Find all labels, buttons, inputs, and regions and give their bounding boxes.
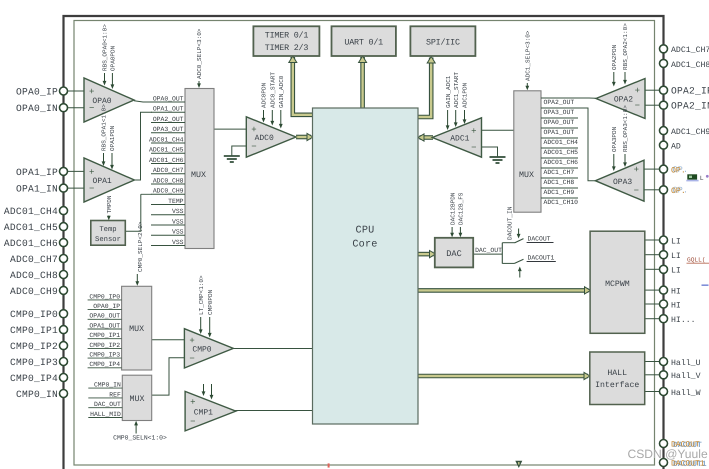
pin ADC0_CH7 [60,255,68,263]
op-amp OPA3 [595,160,644,201]
wire ADC0 minus to ground [232,146,247,156]
svg-text:OPA1_OUT: OPA1_OUT [153,106,184,113]
bus ADC0 out to CPU [296,135,311,140]
pin OPA2_IN right y=105.2 [660,101,668,109]
wire OPA2 out to MUX1 [541,97,596,99]
svg-text:CMP0_IP1: CMP0_IP1 [89,332,120,339]
svg-text:OPA1_IN: OPA1_IN [16,184,58,195]
svg-text:MUX: MUX [129,325,144,334]
wire CMP0 out to CPU [233,348,312,350]
svg-text:GAIN_ADC0: GAIN_ADC0 [278,75,285,108]
wire MCPWM out 2 [645,254,660,256]
ground ADC1 [490,156,506,158]
svg-text:RBS_OPA2<1:0>: RBS_OPA2<1:0> [622,23,629,70]
svg-text:MUX: MUX [519,171,534,180]
svg-text:CMP0_IP1: CMP0_IP1 [10,325,58,336]
svg-text:ADC01_CH5: ADC01_CH5 [4,222,58,233]
svg-text:−: − [471,143,476,153]
block CMP0 MUX N [122,375,151,420]
wire DAC out [473,253,502,255]
svg-text:ADC01_CH6: ADC01_CH6 [4,238,58,249]
svg-text:CMP0_SELP<2:0>: CMP0_SELP<2:0> [137,221,144,272]
svg-text:OPA0_OUT: OPA0_OUT [544,119,575,126]
bus SPI to CPU [418,58,432,118]
svg-text:OPA1PDN: OPA1PDN [109,125,116,151]
svg-text:ADC1_CH9: ADC1_CH9 [544,189,575,196]
wire OPA2_IN [645,104,659,106]
svg-text:CMP0_IP0: CMP0_IP0 [89,293,120,300]
block UART [332,26,396,56]
pin OPA0_IP [60,87,68,95]
svg-text:ADC01_CH5: ADC01_CH5 [544,149,579,156]
wire OPA0_IP stub [68,90,85,92]
pin OPA0_IN [60,104,68,112]
block MUX1 (ADC1 mux) [514,91,541,212]
svg-text:L: L [700,175,704,182]
svg-text:CMP0_IP3: CMP0_IP3 [10,357,58,368]
node DACOUT switch bar [501,243,503,264]
MUX1 input rows [541,97,578,99]
svg-text:OPA2_OUT: OPA2_OUT [544,99,575,106]
block MCPWM [590,231,645,333]
svg-text:CMP0_IN: CMP0_IN [94,382,121,389]
wire CMP1 out to CPU [235,410,312,412]
block MUX0 (ADC0 mux) [185,89,214,249]
svg-text:VSS: VSS [172,208,184,215]
wire OPA0 out to MUX0 [134,101,185,102]
wire MCPWM out 5 [645,303,660,305]
pin AD right y=145.1 [660,141,668,149]
pin OP. right y=189.8 [673,186,688,196]
wire OPA3_IP [644,168,659,170]
svg-text:Hall_U: Hall_U [671,359,701,368]
block CPU Core [313,108,419,424]
inner frame (olive) [74,21,655,466]
svg-text:ADC1_CH7: ADC1_CH7 [671,46,709,55]
artifact red tick [328,463,330,467]
svg-text:SPI/IIC: SPI/IIC [426,38,460,48]
svg-text:ADC1_CH7: ADC1_CH7 [544,169,575,176]
svg-text:ADC0_CH9: ADC0_CH9 [153,188,184,195]
block DAC [435,238,473,268]
signal arrow CMP1 b [211,384,213,397]
wire ADC1 minus to ground [482,147,498,157]
wire HALL out 3 [645,391,660,393]
arrow DACOUT1 select [519,270,521,278]
svg-text:OP.: OP. [671,187,686,196]
svg-text:ADC0_CH8: ADC0_CH8 [10,270,58,281]
svg-text:ADC01_CH4: ADC01_CH4 [4,206,58,217]
svg-text:CMP0_IP4: CMP0_IP4 [89,361,120,368]
switch blade DACOUT1 [515,259,524,263]
svg-text:UART 0/1: UART 0/1 [344,38,383,48]
svg-text:CMP0: CMP0 [192,346,211,355]
signal arrow CMP1 a [203,384,205,393]
pin HI right y=290.1 [660,286,668,294]
wire CMP0MUX to CMP0 plus [152,339,185,341]
svg-text:−: − [635,101,640,111]
block Temp Sensor [91,221,126,246]
svg-text:ADC1PDN: ADC1PDN [462,82,469,108]
svg-text:CMP0PDN: CMP0PDN [207,289,214,315]
svg-text:OPA1_IP: OPA1_IP [16,167,58,178]
pin OPA1_IP [60,167,68,175]
svg-text:CMP0_IP0: CMP0_IP0 [10,309,58,320]
bus CPU to ADC1 [420,135,434,140]
pin LI right y=269.3 [660,265,668,273]
svg-text:RBS_OPA1<1:0>: RBS_OPA1<1:0> [101,104,108,151]
svg-text:TMPDN: TMPDN [106,195,113,213]
svg-text:ADC1_CH8: ADC1_CH8 [671,61,709,70]
comparator CMP1 [185,391,236,431]
wire DACOUT label underline [527,242,554,244]
wire ADC0_CH9 row extension [141,193,152,195]
pin OPA2_IP right y=90.2 [660,86,668,94]
svg-text:DAC: DAC [446,249,461,259]
svg-text:OPA0_OUT: OPA0_OUT [89,313,120,320]
wire DACOUT1 label underline [527,261,556,263]
switch blade DACOUT [515,239,524,243]
svg-text:REF: REF [109,391,121,398]
svg-text:LI: LI [671,252,681,261]
svg-text:LI: LI [671,237,681,246]
wire OPA0_IN stub [68,107,85,109]
svg-text:CMP0_SELN<1:0>: CMP0_SELN<1:0> [113,435,167,442]
bus TIMER to CPU [293,57,313,115]
wire MCPWM out 3 [645,268,660,270]
svg-text:+: + [635,86,640,96]
pin ADC01_CH6 [60,239,68,247]
artifact link icon near OPA3_IP [687,174,697,179]
svg-text:MUX: MUX [191,171,206,180]
svg-text:CMP0_IP2: CMP0_IP2 [10,341,58,352]
wire HALL out 2 [645,374,660,376]
svg-text:CMP0_IP3: CMP0_IP3 [89,352,120,359]
svg-text:+: + [89,167,94,177]
pin ADC0_CH8 [60,271,68,279]
wire OPA3_IN [644,189,659,191]
svg-text:OPA1: OPA1 [93,177,112,186]
svg-text:TIMER 2/3: TIMER 2/3 [265,43,309,53]
bus CPU to HALL [418,374,588,379]
svg-text:Temp: Temp [99,226,116,234]
op-amp OPA2 [596,79,645,119]
svg-text:Core: Core [352,240,377,251]
comparator CMP0 [184,329,233,368]
wire MUX0 to ADC0 plus [214,128,247,130]
pin CMP0_IN [60,390,68,398]
op-amp OPA1 [84,158,134,202]
svg-text:ADC0_START: ADC0_START [270,72,277,108]
svg-text:ADC1_CH10: ADC1_CH10 [544,199,579,206]
wire DACOUT branch [502,242,514,244]
wire MCPWM out 4 [645,289,660,291]
bus UART to CPU [360,57,365,109]
CMP0 MUX P rows [88,299,122,301]
svg-text:ADC01_CH6: ADC01_CH6 [544,159,579,166]
pin ADC1_CH8 right y=63.4 [660,59,668,67]
wire MCPWM out 6 [645,318,660,320]
pin Hall_V right y=374.8 [660,371,668,379]
pin HI... right y=318.7 [660,315,668,323]
svg-text:TEMP: TEMP [168,198,184,205]
svg-text:OPA0_IN: OPA0_IN [16,103,58,114]
pin ADC01_CH5 [60,223,68,231]
bus CPU to MCPWM [418,288,589,293]
svg-text:Hall_W: Hall_W [671,389,701,398]
svg-text:OPA2_IN: OPA2_IN [671,101,709,112]
adc ADC1 [432,118,481,157]
svg-text:ADC1_CH9: ADC1_CH9 [671,128,709,137]
wire HALL out 1 [645,361,660,363]
svg-text:LI: LI [671,267,681,276]
ground ADC0 [224,155,240,157]
svg-text:ADC01_CH4: ADC01_CH4 [149,136,184,143]
adc ADC0 [246,117,296,157]
svg-text:HALL: HALL [607,369,627,378]
svg-text:HI: HI [671,288,681,297]
pin ADC1_CH9 right y=130.6 [660,127,668,135]
svg-text:+: + [190,398,195,408]
svg-text:ADC1_CH8: ADC1_CH8 [544,179,575,186]
svg-text:GQLL(: GQLL( [687,257,706,264]
svg-text:OPA2PDN: OPA2PDN [611,44,618,70]
svg-text:OPA1_OUT: OPA1_OUT [544,129,575,136]
svg-text:ADC0: ADC0 [255,134,274,143]
wire Temp Sensor to ADC0_CH9 row [126,194,141,231]
svg-text:ADC1_SELP<3:0>: ADC1_SELP<3:0> [525,30,532,81]
svg-text:Hall_V: Hall_V [671,372,701,381]
bus CPU to DAC [418,252,434,257]
svg-text:CMP0_IN: CMP0_IN [16,389,58,400]
svg-text:ADC1_START: ADC1_START [453,72,460,108]
svg-text:−: − [634,186,639,196]
svg-text:VSS: VSS [172,218,184,225]
svg-text:OPA3_OUT: OPA3_OUT [544,109,575,116]
svg-text:RBS_OPA3<1:0>: RBS_OPA3<1:0> [622,105,629,152]
pin CMP0_IP0 [60,310,68,318]
svg-text:ADC01_CH4: ADC01_CH4 [544,139,579,146]
svg-text:OPA3PDN: OPA3PDN [611,126,618,152]
svg-text:+: + [89,87,94,97]
svg-text:+: + [634,165,639,175]
svg-text:GAIN_ADC1: GAIN_ADC1 [445,75,452,108]
wire DACOUT1 branch [502,262,514,264]
svg-text:OPA3_OUT: OPA3_OUT [153,126,184,133]
svg-text:+: + [471,126,476,136]
MUX0 input rows [151,101,185,103]
pin LI right y=254.7 [660,251,668,259]
svg-text:ADC0_CH7: ADC0_CH7 [153,167,184,174]
wire OPA1_IP stub [68,170,85,172]
bottom frame exit arrow [515,461,522,468]
svg-text:ADC01_CH5: ADC01_CH5 [149,147,184,154]
svg-text:OPA0PDN: OPA0PDN [110,45,117,71]
svg-text:VSS: VSS [172,229,184,236]
svg-text:RBS_OPA0<1:0>: RBS_OPA0<1:0> [102,24,109,71]
pin CMP0_IP1 [60,326,68,334]
svg-text:HI: HI [671,301,681,310]
pin OPA1_IN [60,184,68,192]
svg-text:ADC0_CH9: ADC0_CH9 [10,286,58,297]
svg-text:OPA3: OPA3 [613,178,632,187]
artifact blue dash [702,284,709,286]
wire OPA1_IN stub [68,187,85,189]
svg-text:CMP0_IP4: CMP0_IP4 [10,373,58,384]
svg-text:DAC12B_FS: DAC12B_FS [458,192,465,225]
svg-text:OPA2: OPA2 [614,96,633,105]
svg-text:OPA2_OUT: OPA2_OUT [153,116,184,123]
svg-text:CSDN @Yuule: CSDN @Yuule [628,447,708,461]
svg-text:OP.: OP. [671,167,686,176]
pin CMP0_IP2 [60,342,68,350]
svg-text:Interface: Interface [595,381,639,390]
pin CMP0_IP4 [60,374,68,382]
CMP0 MUX N rows [88,387,122,389]
svg-text:ADC0PDN: ADC0PDN [261,82,268,108]
svg-text:HALL_MID: HALL_MID [90,411,121,418]
wire ADC1 plus to MUX1 [482,129,514,131]
block HALL Interface [590,352,645,405]
svg-text:ADC0_CH8: ADC0_CH8 [153,177,184,184]
wire MCPWM out 1 [645,239,660,241]
block TIMER [253,26,319,56]
pin Hall_W right y=391.5 [660,388,668,396]
svg-text:OPA2_IP: OPA2_IP [671,86,709,97]
wire OPA2_IP [645,89,659,91]
svg-text:+: + [189,336,194,346]
svg-text:VSS: VSS [172,239,184,246]
svg-text:OPA0_IP: OPA0_IP [16,86,58,97]
svg-text:−: − [189,354,194,364]
pin ADC0_CH9 [60,286,68,294]
svg-text:OPA1_OUT: OPA1_OUT [89,322,120,329]
svg-text:CMP0_IP2: CMP0_IP2 [89,342,120,349]
op-amp OPA0 [84,78,134,122]
wire OPA1 out to MUX0 [134,112,152,180]
svg-text:ADC1: ADC1 [450,135,469,144]
svg-text:TIMER 0/1: TIMER 0/1 [265,31,309,41]
svg-text:HI...: HI... [671,316,696,325]
svg-text:OPA0_IP: OPA0_IP [93,303,120,310]
svg-text:ADC01_CH6: ADC01_CH6 [149,157,184,164]
pin ADC01_CH4 [60,207,68,215]
svg-text:DACOUT_IN: DACOUT_IN [506,206,513,240]
svg-text:LT_CMP<1:0>: LT_CMP<1:0> [198,275,205,315]
svg-text:−: − [251,142,256,152]
pin HI right y=304 [660,300,668,308]
wire CMP0MUXN to CMP0 minus [152,358,185,395]
svg-text:Sensor: Sensor [95,236,121,244]
block CMP0 MUX P [122,286,152,370]
svg-text:CMP1: CMP1 [194,408,213,417]
pin CMP0_IP3 [60,358,68,366]
block SPI/IIC [410,26,475,56]
svg-text:DAC_OUT: DAC_OUT [475,247,502,254]
svg-text:CPU: CPU [356,226,375,237]
svg-text:OPA0_OUT: OPA0_OUT [153,95,184,102]
pin OP. right y=169.1 [673,165,688,175]
pin ADC1_CH7 right y=48.8 [660,45,668,53]
svg-text:AD: AD [671,143,681,152]
arrow DACOUT_IN select [518,229,520,236]
svg-text:DAC12BPDN: DAC12BPDN [449,192,456,225]
svg-text:MCPWM: MCPWM [605,280,630,289]
pin Hall_U right y=361.5 [660,358,668,366]
svg-text:DACOUT1: DACOUT1 [528,254,555,261]
svg-text:ADC0_SELP<3:0>: ADC0_SELP<3:0> [196,28,203,79]
svg-text:MUX: MUX [130,395,145,404]
svg-text:DAC_OUT: DAC_OUT [94,401,121,408]
pin LI right y=240 [660,236,668,244]
svg-text:−: − [190,417,195,427]
svg-text:DACOUT: DACOUT [528,235,551,242]
wire OPA3 out to MUX1 [541,108,595,181]
svg-text:ADC0_CH7: ADC0_CH7 [10,254,58,265]
